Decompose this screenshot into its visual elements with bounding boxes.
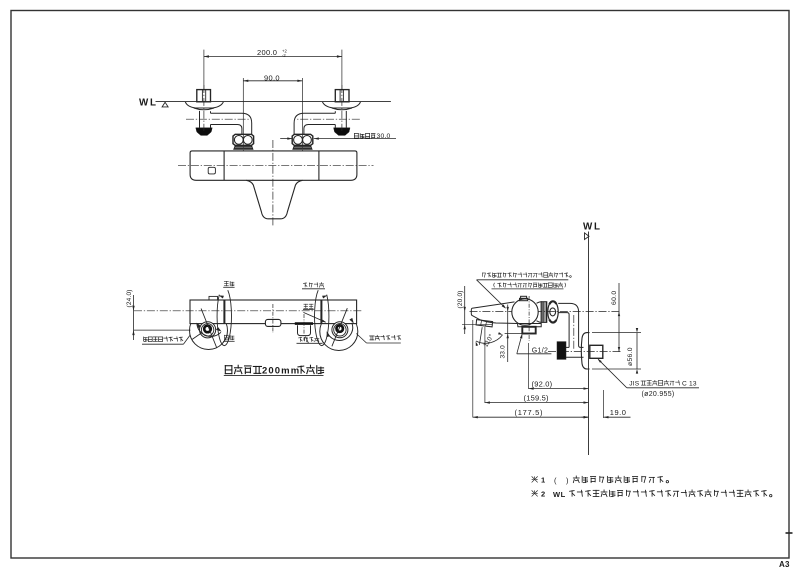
hot direction arc (tall ellipse): [217, 290, 231, 345]
svg-text:(24.0): (24.0): [126, 289, 133, 307]
crank center line: [203, 85, 205, 131]
right border tick: [786, 532, 793, 534]
faucet body (front view): [190, 151, 357, 180]
dimension (177.5): [472, 320, 474, 418]
temperature handle outline circle (plan): [190, 312, 228, 350]
torus top shading: [549, 301, 556, 304]
pipe side outlet cup (plan): [298, 325, 311, 335]
svg-text:WL: WL: [553, 490, 566, 499]
crank dim extension line: [203, 50, 205, 90]
WL triangle marker (side view): [585, 233, 590, 240]
dimension 200.0: [204, 56, 342, 58]
temperature handle hub inner ring: [201, 324, 213, 336]
dimension 60.0: [618, 283, 620, 352]
crank arm elbow: [211, 113, 252, 134]
crank escutcheon flange: [322, 102, 360, 108]
switch handle hub inner ring: [334, 324, 346, 336]
label switch handle 切替ハンドル: [370, 336, 375, 340]
check valve nut (hex): [292, 134, 313, 145]
body division line right: [318, 151, 320, 180]
torus bottom shading: [549, 320, 556, 323]
svg-text:G1/2: G1/2: [532, 347, 548, 354]
note 1: ( ) dims are reference dims: [532, 476, 538, 482]
handle spokes: [201, 309, 217, 349]
spout end (plan view): [265, 319, 281, 326]
svg-text:200.0: 200.0: [257, 48, 277, 57]
temperature handle rotation arc: [197, 323, 221, 336]
crank wall stub (hex): [335, 90, 349, 102]
svg-text:90.0: 90.0: [264, 74, 280, 83]
crank vertical axis (side): [573, 315, 575, 349]
label stop 止水: [304, 304, 308, 308]
spout center line (plan): [272, 304, 274, 333]
top tab on body (plan): [209, 296, 218, 300]
svg-text:19.0: 19.0: [610, 408, 627, 417]
shower outlet nozzle G1/2 (bold): [522, 327, 535, 334]
wall escutcheon flange (side): [581, 333, 589, 369]
plan body axis center line: [134, 310, 362, 312]
svg-text:(177.5): (177.5): [515, 408, 544, 417]
svg-text:1: 1: [541, 476, 545, 485]
crank pipe (side view): [558, 303, 583, 347]
pipe outlet center line (plan): [303, 314, 305, 341]
svg-text:(20.0): (20.0): [457, 290, 464, 308]
handle axis extension line: [134, 329, 191, 331]
check valve center line: [242, 78, 244, 134]
dimension (159.5): [484, 327, 486, 403]
label JIS thread C13: [598, 359, 627, 388]
svg-text:WL: WL: [583, 221, 602, 232]
switch screw (dark ring): [337, 325, 343, 331]
check valve torus (side): [548, 301, 558, 323]
caption 取付芯々200mmの場合: [225, 366, 232, 374]
dimension 90.0: [243, 80, 302, 82]
bottom outlet step: [518, 324, 542, 327]
dimension phi 56.0: [592, 332, 641, 334]
wall nipple pipe: [590, 345, 603, 358]
svg-text:ø56.0: ø56.0: [627, 347, 634, 366]
body division line left: [223, 151, 225, 180]
crank dim extension line: [341, 50, 343, 90]
dimension (24.0): [133, 295, 135, 340]
crank pipe black end cap: [334, 128, 350, 136]
label shower side シャワ側: [303, 283, 307, 287]
note 2: dims from WL vary with crank screw-in: [532, 490, 538, 496]
dimension (92.0): [528, 343, 530, 389]
pipe side bold mark on bar: [295, 322, 313, 325]
crank arm center line: [296, 118, 360, 120]
body detail square button: [208, 167, 215, 174]
plan division line right (bold): [320, 300, 322, 324]
svg-text:JIS: JIS: [629, 381, 640, 388]
label cold 低温: [224, 335, 228, 340]
check valve center line: [302, 78, 304, 134]
plan division line left (bold): [223, 300, 225, 324]
crank vertical pipe: [199, 111, 201, 128]
note: attach shower set here: [483, 273, 486, 278]
leader to spout: [477, 280, 506, 308]
crank escutcheon flange: [185, 102, 223, 108]
black cap nut on crank leg: [557, 342, 566, 360]
body top tab step: [520, 298, 528, 300]
dimension (20.0): [464, 286, 466, 334]
crank arm elbow: [294, 113, 335, 134]
body top tab: [521, 296, 527, 298]
WL level triangle marker: [162, 102, 168, 107]
body vertical center line: [272, 140, 274, 227]
switch handle outline circle (plan): [320, 313, 358, 351]
crank center line: [341, 85, 343, 131]
crank vertical pipe: [345, 111, 347, 128]
shower direction arc (tall ellipse): [315, 290, 329, 345]
spout shower attachment (side): [476, 320, 493, 327]
svg-text:30.0: 30.0: [377, 133, 391, 140]
check valve circles: [234, 136, 243, 145]
temperature handle hub: [200, 322, 216, 338]
outlet vertical center line: [528, 296, 530, 341]
svg-text:2: 2: [541, 490, 545, 499]
label hot 高温: [224, 281, 228, 285]
label hex across flats 30.0: [280, 138, 292, 140]
svg-text:(: (: [554, 476, 557, 485]
valve body circle (side view): [512, 299, 538, 325]
switch handle spokes: [332, 308, 347, 346]
body horizontal center line: [178, 164, 374, 166]
crank wall stub (hex): [197, 90, 211, 102]
crank lower leg: [566, 346, 569, 348]
crank arm center line: [186, 118, 250, 120]
wall line WL vertical (side view): [588, 232, 590, 456]
dimension 33.0: [507, 305, 509, 363]
dimension 19.0: [603, 390, 605, 418]
spout swivel angle 110deg: [479, 327, 482, 345]
svg-text:WL: WL: [139, 98, 158, 109]
wall pipe axis center line (side): [548, 351, 621, 353]
wall line WL (front view): [156, 101, 391, 103]
faucet body bar (plan view): [190, 300, 357, 324]
handle screw (dark ring): [204, 326, 211, 333]
spout (front view): [246, 180, 302, 219]
svg-text:A3: A3: [779, 560, 790, 569]
check valve circles: [303, 136, 312, 145]
label pipe side パイプ側: [299, 337, 303, 341]
crank pipe black end cap: [196, 128, 212, 136]
svg-text:60.0: 60.0: [611, 291, 618, 305]
check valve striped base: [293, 145, 312, 149]
check valve striped base: [234, 145, 253, 149]
svg-text:200mm: 200mm: [262, 365, 300, 376]
check valve nut (hex): [233, 134, 254, 145]
spout (side view): [471, 308, 517, 323]
svg-text:(ø20.955): (ø20.955): [642, 391, 675, 398]
svg-text:33.0: 33.0: [500, 345, 507, 359]
switch handle rotation arc: [327, 323, 353, 341]
neck to check valve: [537, 302, 542, 323]
faucet axis center line (side): [470, 311, 621, 313]
svg-text:C 13: C 13: [682, 381, 697, 388]
svg-text:(92.0): (92.0): [532, 380, 553, 389]
knurled band: [541, 302, 547, 323]
label temperature handle 温度調節ハンドル: [143, 337, 147, 342]
svg-text:): ): [566, 476, 569, 485]
switch handle hub: [332, 322, 348, 338]
svg-text:(159.5): (159.5): [524, 394, 549, 403]
